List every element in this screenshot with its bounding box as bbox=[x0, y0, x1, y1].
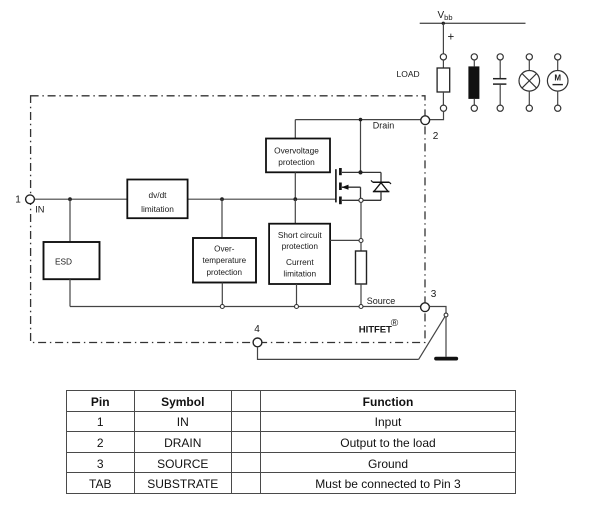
junction rail over-temp bbox=[220, 305, 224, 309]
transistor Q1 power MOSFET bbox=[336, 168, 381, 204]
svg-text:+: + bbox=[448, 32, 455, 44]
label 2 bbox=[433, 131, 439, 142]
label Source bbox=[367, 296, 396, 306]
wire tab diagonal bbox=[419, 317, 445, 360]
terminal 2 DRAIN bbox=[421, 116, 430, 125]
wire bbox=[442, 92, 444, 105]
svg-text:temperature: temperature bbox=[202, 256, 246, 265]
label 1 bbox=[15, 195, 21, 206]
junction drain bus tap bbox=[359, 118, 363, 122]
wire Vbb down bbox=[442, 23, 444, 53]
resistor sense bbox=[356, 251, 367, 284]
wire IN bus bbox=[34, 198, 336, 200]
svg-text:®: ® bbox=[391, 318, 399, 329]
block short circuit protection / current limitation bbox=[269, 224, 330, 284]
block over-temperature protection bbox=[193, 238, 256, 283]
svg-text:Short circuit: Short circuit bbox=[278, 230, 322, 240]
label + bbox=[448, 32, 455, 44]
svg-text:protection: protection bbox=[278, 157, 315, 167]
svg-text:Current: Current bbox=[286, 257, 314, 267]
resistor LOAD bbox=[437, 68, 450, 92]
wire source to tab node bbox=[429, 307, 446, 314]
wire load to drain terminal bbox=[429, 111, 443, 119]
svg-text:IN: IN bbox=[35, 205, 44, 215]
dashed device boundary bbox=[31, 96, 425, 343]
pin function table bbox=[66, 390, 516, 494]
label HITFET bbox=[359, 325, 392, 336]
svg-text:1: 1 bbox=[15, 195, 21, 206]
svg-text:Over-: Over- bbox=[214, 245, 235, 254]
wire source rail bbox=[70, 306, 421, 308]
svg-text:3: 3 bbox=[431, 289, 437, 300]
junction sense top bbox=[359, 239, 363, 243]
junction tab node bbox=[444, 313, 448, 317]
terminal load top bbox=[440, 54, 446, 60]
label 3 bbox=[431, 289, 437, 300]
load example: resistive load (filled) bbox=[468, 54, 479, 111]
label 4 bbox=[254, 324, 260, 335]
wire drain bus bbox=[295, 119, 421, 121]
load example: lamp bbox=[519, 54, 540, 111]
junction rail SC bbox=[295, 305, 299, 309]
svg-text:Source: Source bbox=[367, 296, 396, 306]
wire bbox=[442, 60, 444, 68]
junction mosfet source bbox=[359, 198, 363, 202]
power rail Vbb bbox=[420, 22, 526, 24]
wire SC bottom bbox=[296, 284, 298, 307]
block overvoltage protection bbox=[266, 139, 330, 173]
svg-text:protection: protection bbox=[282, 241, 319, 251]
block dv/dt limitation bbox=[127, 180, 187, 219]
svg-text:Overvoltage: Overvoltage bbox=[274, 146, 319, 156]
svg-text:limitation: limitation bbox=[141, 204, 174, 214]
wire to ground bbox=[445, 317, 447, 357]
wire bbox=[69, 279, 71, 306]
svg-text:HITFET: HITFET bbox=[359, 325, 392, 336]
svg-text:4: 4 bbox=[254, 324, 260, 335]
terminal 1 IN bbox=[26, 195, 35, 204]
svg-text:M: M bbox=[554, 73, 561, 82]
wire bbox=[294, 172, 296, 199]
svg-text:2: 2 bbox=[433, 131, 439, 142]
wire tab bbox=[258, 347, 419, 360]
wire sense tap bbox=[330, 239, 361, 241]
wire bbox=[294, 199, 296, 224]
load example: motor M bbox=[547, 54, 568, 111]
svg-text:Drain: Drain bbox=[373, 121, 395, 131]
svg-text:limitation: limitation bbox=[283, 269, 316, 279]
block ESD bbox=[44, 242, 100, 279]
label Vbb bbox=[438, 10, 453, 22]
wire overvoltage top bbox=[294, 120, 296, 139]
diode Z1 drain clamp bbox=[371, 172, 391, 200]
junction ESD tap bbox=[68, 197, 72, 201]
junction over-temp tap bbox=[220, 197, 224, 201]
label IN bbox=[35, 205, 44, 215]
load example: capacitor bbox=[493, 54, 506, 111]
ground bbox=[436, 357, 456, 361]
svg-text:Vbb: Vbb bbox=[438, 10, 453, 22]
label Drain bbox=[373, 121, 395, 131]
svg-text:dv/dt: dv/dt bbox=[149, 190, 168, 200]
wire mosfet drain drop bbox=[360, 120, 362, 173]
wire bbox=[69, 199, 71, 242]
junction mosfet drain bbox=[358, 170, 362, 174]
terminal load bottom bbox=[440, 105, 446, 111]
svg-text:LOAD: LOAD bbox=[397, 69, 420, 79]
junction rail sense bbox=[359, 305, 363, 309]
svg-text:ESD: ESD bbox=[55, 256, 72, 266]
wire bbox=[221, 283, 223, 307]
junction Vbb tap bbox=[442, 22, 445, 25]
junction gate node bbox=[293, 197, 297, 201]
svg-text:protection: protection bbox=[207, 268, 243, 277]
label LOAD bbox=[397, 69, 420, 79]
wire sense resistor drop bbox=[360, 202, 362, 251]
terminal 4 TAB bbox=[253, 338, 262, 347]
label registered mark bbox=[391, 318, 399, 329]
wire bbox=[221, 199, 223, 238]
wire bbox=[360, 284, 362, 307]
terminal 3 SOURCE bbox=[421, 303, 430, 312]
